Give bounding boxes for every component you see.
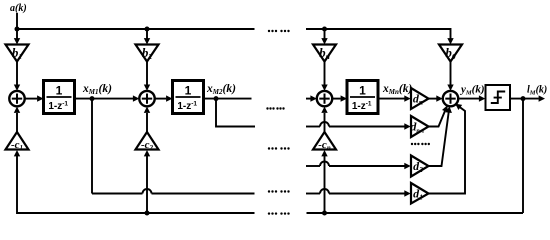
svg-text:1: 1 bbox=[56, 84, 63, 98]
gain b2 bbox=[136, 45, 159, 62]
summer So (output) bbox=[443, 91, 458, 106]
gain d1 bbox=[411, 183, 429, 204]
wire dn-1 to summer So bbox=[429, 108, 447, 127]
wire main row into summer Sn bbox=[306, 98, 311, 100]
ellipsis x_M1 row bbox=[268, 190, 290, 192]
gain b1 bbox=[6, 45, 29, 62]
ellipsis between d gains bbox=[411, 143, 430, 145]
wire S2 to integrator 2 bbox=[155, 98, 167, 100]
gain dn-1 bbox=[410, 116, 428, 137]
wire c1 to summer S1 bbox=[16, 113, 18, 132]
wire x_M1 drop bbox=[91, 99, 93, 194]
node tap b2 bbox=[145, 27, 150, 32]
svg-text:yM(k): yM(k) bbox=[459, 84, 485, 97]
wire feedback drop bbox=[522, 99, 524, 213]
wire top bus right bbox=[306, 29, 451, 39]
gain cn bbox=[313, 132, 336, 152]
node tap b1 bbox=[15, 27, 20, 32]
wire x_Mn-1 feed row (hop at cn column) bbox=[306, 126, 320, 128]
ellipsis omitted feeds bbox=[268, 147, 290, 149]
gain c2 bbox=[136, 132, 159, 152]
node feedback cn bbox=[322, 211, 327, 216]
gain dn bbox=[411, 88, 429, 109]
wire feedback to gain cn bbox=[324, 155, 326, 213]
wire input drop bbox=[16, 13, 18, 29]
wire integrator1 to summer S2 bbox=[75, 98, 134, 100]
node tap bn bbox=[322, 27, 327, 32]
wire b0 to summer So bbox=[450, 62, 452, 86]
wire b1 to summer bbox=[16, 62, 18, 86]
wire to gain b2 bbox=[146, 29, 148, 39]
gain d2 bbox=[411, 156, 429, 177]
wire integrator n to gain dn bbox=[378, 98, 405, 100]
wire integrator2 onward bbox=[204, 98, 252, 100]
wire dn to summer So bbox=[429, 98, 437, 100]
wire feedback to gain c1 bbox=[14, 150, 20, 156]
integrator n bbox=[347, 81, 378, 114]
integrator 2 bbox=[173, 81, 204, 114]
gain b0 bbox=[439, 45, 462, 62]
wire d2 to summer So bbox=[429, 112, 449, 166]
summer S2 bbox=[139, 91, 154, 106]
wire b2 to summer S2 bbox=[146, 62, 148, 86]
wire to gain bn bbox=[324, 29, 326, 39]
ellipsis main row bbox=[266, 107, 284, 109]
gain c1 bbox=[6, 132, 29, 152]
wire x_M1 row right (hop at cn column) bbox=[306, 193, 320, 195]
node x_M2 bbox=[214, 96, 219, 101]
wire to gain b1 bbox=[16, 29, 18, 39]
integrator 1 bbox=[44, 81, 75, 114]
wire x_M1 row left (hop at c2 column) bbox=[92, 193, 143, 195]
wire top bus left bbox=[17, 28, 255, 30]
svg-text:a(k): a(k) bbox=[10, 3, 27, 14]
wire quantizer to output bbox=[510, 98, 539, 100]
summer Sn bbox=[317, 91, 332, 106]
quantizer bbox=[486, 85, 511, 110]
summer S1 bbox=[9, 91, 24, 106]
wire cn to summer Sn bbox=[324, 113, 326, 132]
wire to gain b0 bbox=[447, 38, 453, 44]
wire So to quantizer bbox=[458, 98, 479, 100]
wire d1 to summer So bbox=[429, 105, 466, 194]
wire feedback bottom left bbox=[17, 155, 255, 213]
wire c2 to summer S2 bbox=[146, 113, 148, 132]
wire feedback to gain c2 bbox=[146, 155, 148, 213]
wire Sn to integrator n bbox=[332, 98, 341, 100]
svg-text:1: 1 bbox=[359, 84, 366, 98]
svg-text:1: 1 bbox=[185, 84, 192, 98]
wire bn to summer Sn bbox=[324, 62, 326, 86]
wire d2 feed row (hop at cn column) bbox=[306, 165, 320, 167]
node feedback c2 bbox=[145, 211, 150, 216]
ellipsis top bus bbox=[268, 30, 290, 32]
wire x_M2 drop bbox=[216, 99, 255, 127]
wire feedback bottom right bbox=[307, 212, 524, 214]
wire S1 to integrator 1 bbox=[25, 98, 38, 100]
node output tap bbox=[521, 96, 526, 101]
node x_M1 bbox=[90, 96, 95, 101]
gain bn bbox=[313, 45, 336, 62]
ellipsis feedback row bbox=[268, 212, 290, 214]
